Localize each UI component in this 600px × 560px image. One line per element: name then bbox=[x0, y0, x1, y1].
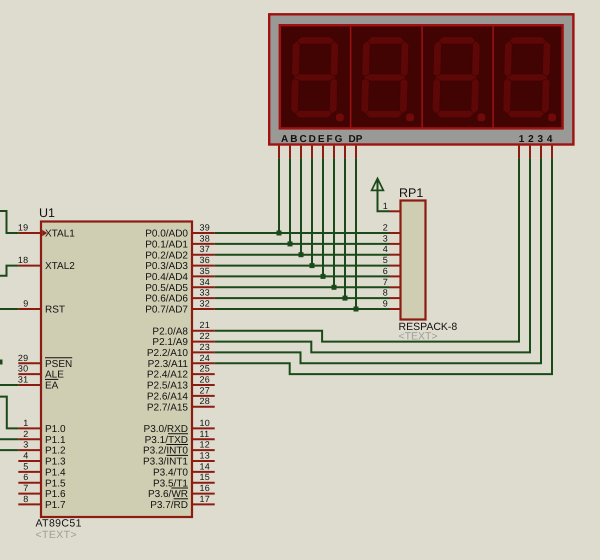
svg-text:38: 38 bbox=[200, 233, 211, 243]
wire display segment E down to AD4 net bbox=[322, 158, 324, 276]
svg-text:11: 11 bbox=[200, 429, 210, 439]
U1 pin 9 RST stub bbox=[18, 308, 41, 310]
svg-text:30: 30 bbox=[18, 364, 29, 374]
U1 pin 26 P2.5/A13 stub bbox=[192, 384, 215, 386]
svg-text:P2.4/A12: P2.4/A12 bbox=[147, 370, 189, 381]
svg-text:17: 17 bbox=[200, 494, 211, 504]
overline for P3.6/WR bbox=[171, 487, 188, 489]
resistor pack RP1 body bbox=[401, 201, 426, 320]
svg-text:23: 23 bbox=[200, 342, 211, 352]
wire P2.1 to display digit 2 bbox=[215, 158, 530, 352]
wire P0.5 to RP1 pin 7 (net AD5) bbox=[215, 286, 390, 288]
junction node AD0 bbox=[277, 231, 282, 236]
svg-text:RP1: RP1 bbox=[399, 186, 423, 200]
U1 pin 4 P1.3 stub bbox=[18, 460, 41, 462]
svg-text:32: 32 bbox=[200, 299, 211, 309]
svg-text:PSEN: PSEN bbox=[45, 359, 72, 370]
U1 pin 10 P3.0/RXD stub bbox=[192, 427, 215, 429]
wire to EA bbox=[0, 384, 18, 386]
svg-text:5: 5 bbox=[383, 255, 388, 265]
display digit 4 pin stub bbox=[551, 146, 553, 159]
svg-text:2: 2 bbox=[528, 134, 534, 145]
svg-text:4: 4 bbox=[383, 244, 388, 254]
U1 pin 33 P0.6/AD6 stub bbox=[192, 297, 215, 299]
svg-text:39: 39 bbox=[200, 223, 211, 233]
U1 pin 32 P0.7/AD7 stub bbox=[192, 308, 215, 310]
wire display segment DP down to AD7 net bbox=[355, 158, 357, 309]
svg-text:P0.2/AD2: P0.2/AD2 bbox=[145, 250, 188, 261]
display digit 2 pin stub bbox=[529, 146, 531, 159]
svg-text:16: 16 bbox=[200, 483, 211, 493]
svg-text:19: 19 bbox=[18, 223, 29, 233]
U1 pin 39 P0.0/AD0 stub bbox=[192, 232, 215, 234]
RP1 pin 6 stub bbox=[390, 275, 401, 277]
display inner dark panel bbox=[280, 25, 563, 128]
U1 pin 37 P0.2/AD2 stub bbox=[192, 254, 215, 256]
U1 pin 13 P3.3/INT1 stub bbox=[192, 460, 215, 462]
svg-text:31: 31 bbox=[18, 375, 29, 385]
svg-text:<TEXT>: <TEXT> bbox=[36, 529, 78, 541]
RP1 pin 4 stub bbox=[390, 254, 401, 256]
U1 pin 31 EA stub bbox=[18, 384, 41, 386]
svg-text:P1.6: P1.6 bbox=[45, 489, 66, 500]
RP1 pin 2 stub bbox=[390, 232, 401, 234]
wire display segment D down to AD3 net bbox=[311, 158, 313, 265]
svg-text:24: 24 bbox=[200, 353, 211, 363]
svg-text:1: 1 bbox=[519, 134, 525, 145]
7-seg ghost digit 1 bbox=[291, 37, 339, 118]
svg-text:21: 21 bbox=[200, 320, 211, 330]
svg-text:28: 28 bbox=[200, 396, 211, 406]
wire to XTAL1 (from off-page crystal) bbox=[0, 211, 18, 233]
wire to P1.0 bbox=[0, 397, 18, 429]
svg-text:P1.0: P1.0 bbox=[45, 424, 66, 435]
U1 pin 11 P3.1/TXD stub bbox=[192, 438, 215, 440]
svg-text:P2.6/A14: P2.6/A14 bbox=[147, 392, 189, 403]
overline for P3.1/TXD bbox=[168, 433, 188, 435]
overline for PSEN bbox=[45, 357, 72, 359]
MCU U1 body bbox=[41, 222, 192, 518]
wire to P1.2 bbox=[0, 449, 18, 451]
U1 pin 6 P1.5 stub bbox=[18, 482, 41, 484]
svg-text:12: 12 bbox=[200, 440, 211, 450]
U1 pin 8 P1.7 stub bbox=[18, 503, 41, 505]
U1 pin 27 P2.6/A14 stub bbox=[192, 395, 215, 397]
U1 pin 12 P3.2/INT0 stub bbox=[192, 449, 215, 451]
svg-text:29: 29 bbox=[18, 353, 29, 363]
svg-text:P2.5/A13: P2.5/A13 bbox=[147, 381, 189, 392]
digit cell separator 3 bbox=[492, 26, 494, 128]
digit cell separator 2 bbox=[421, 26, 423, 128]
svg-text:P2.1/A9: P2.1/A9 bbox=[152, 337, 188, 348]
U1 pin 28 P2.7/A15 stub bbox=[192, 406, 215, 408]
U1 pin 2 P1.1 stub bbox=[18, 438, 41, 440]
svg-text:RST: RST bbox=[45, 305, 65, 316]
svg-text:14: 14 bbox=[200, 461, 211, 471]
wire P0.1 to RP1 pin 3 (net AD1) bbox=[215, 243, 390, 245]
svg-text:P0.6/AD6: P0.6/AD6 bbox=[145, 294, 188, 305]
U1 pin 14 P3.4/T0 stub bbox=[192, 471, 215, 473]
wire P0.7 to RP1 pin 9 (net AD7) bbox=[215, 308, 390, 310]
U1 pin 35 P0.4/AD4 stub bbox=[192, 275, 215, 277]
display segment pin E stub bbox=[322, 146, 324, 159]
svg-text:1: 1 bbox=[383, 201, 388, 211]
7-segment display module outline bbox=[269, 14, 573, 144]
svg-text:1: 1 bbox=[23, 418, 28, 428]
wire to P1.1 bbox=[0, 438, 18, 440]
U1 pin 16 P3.6/WR stub bbox=[192, 493, 215, 495]
svg-text:37: 37 bbox=[200, 244, 211, 254]
power symbol (VCC arrow) bbox=[372, 178, 384, 190]
svg-text:8: 8 bbox=[383, 288, 388, 298]
U1 pin 34 P0.5/AD5 stub bbox=[192, 286, 215, 288]
RP1 pin 7 stub bbox=[390, 286, 401, 288]
svg-text:P0.5/AD5: P0.5/AD5 bbox=[145, 283, 188, 294]
overline for P3.7/RD bbox=[174, 498, 188, 500]
display segment pin B stub bbox=[289, 146, 291, 159]
7-seg ghost digit 4 bbox=[503, 37, 551, 118]
svg-text:7: 7 bbox=[383, 277, 388, 287]
svg-text:8: 8 bbox=[23, 494, 28, 504]
svg-text:13: 13 bbox=[200, 451, 211, 461]
RP1 pin 8 stub bbox=[390, 297, 401, 299]
U1 pin 29 PSEN stub bbox=[18, 362, 41, 364]
wire P0.0 to RP1 pin 2 (net AD0) bbox=[215, 232, 390, 234]
U1 pin 38 P0.1/AD1 stub bbox=[192, 243, 215, 245]
U1 pin 18 XTAL2 stub bbox=[18, 265, 41, 267]
svg-text:2: 2 bbox=[23, 429, 28, 439]
RP1 pin 1 stub bbox=[390, 210, 401, 212]
svg-text:DP: DP bbox=[349, 134, 363, 145]
RP1 pin 5 stub bbox=[390, 265, 401, 267]
svg-text:26: 26 bbox=[200, 375, 211, 385]
7-seg ghost digit 2 bbox=[361, 37, 409, 118]
svg-text:P2.2/A10: P2.2/A10 bbox=[147, 348, 189, 359]
svg-text:6: 6 bbox=[23, 472, 28, 482]
svg-text:P1.7: P1.7 bbox=[45, 500, 66, 511]
display segment pin F stub bbox=[333, 146, 335, 159]
display segment pin G stub bbox=[344, 146, 346, 159]
display digit 3 pin stub bbox=[540, 146, 542, 159]
display segment pin DP stub bbox=[355, 146, 357, 159]
junction node AD1 bbox=[288, 241, 293, 246]
U1 pin 1 P1.0 stub bbox=[18, 427, 41, 429]
svg-text:P0.0/AD0: P0.0/AD0 bbox=[145, 229, 188, 240]
svg-text:ABCDEFG: ABCDEFG bbox=[281, 134, 344, 145]
svg-text:15: 15 bbox=[200, 472, 211, 482]
wire P2.0 to display digit 1 bbox=[215, 158, 519, 341]
svg-text:5: 5 bbox=[23, 461, 28, 471]
wire to XTAL2 (from off-page crystal) bbox=[0, 266, 18, 276]
display segment pin A stub bbox=[278, 146, 280, 159]
digit cell separator 1 bbox=[350, 26, 352, 128]
decimal point DP digit 4 bbox=[548, 114, 556, 122]
svg-text:P1.5: P1.5 bbox=[45, 478, 66, 489]
display segment pin C stub bbox=[300, 146, 302, 159]
svg-text:P2.0/A8: P2.0/A8 bbox=[152, 326, 188, 337]
junction node AD4 bbox=[321, 274, 326, 279]
svg-text:3: 3 bbox=[23, 440, 28, 450]
RP1 pin 3 stub bbox=[390, 243, 401, 245]
wire display segment G down to AD6 net bbox=[344, 158, 346, 298]
U1 pin 22 P2.1/A9 stub bbox=[192, 341, 215, 343]
7-seg ghost digit 3 bbox=[432, 37, 480, 118]
svg-text:6: 6 bbox=[383, 266, 388, 276]
U1 pin 19 XTAL1 stub bbox=[18, 232, 41, 234]
U1 pin 15 P3.5/T1 stub bbox=[192, 482, 215, 484]
wire P0.4 to RP1 pin 6 (net AD4) bbox=[215, 275, 390, 277]
junction node AD5 bbox=[332, 285, 337, 290]
svg-text:P1.3: P1.3 bbox=[45, 457, 66, 468]
svg-text:P3.7/RD: P3.7/RD bbox=[150, 500, 188, 511]
decimal point DP digit 3 bbox=[478, 114, 486, 122]
decimal point DP digit 2 bbox=[406, 114, 414, 122]
wire P0.2 to RP1 pin 4 (net AD2) bbox=[215, 254, 390, 256]
display segment pin D stub bbox=[311, 146, 313, 159]
wire display segment A down to AD0 net bbox=[278, 158, 280, 233]
svg-text:XTAL2: XTAL2 bbox=[45, 261, 75, 272]
U1 pin 17 P3.7/RD stub bbox=[192, 503, 215, 505]
XTAL1 clock arrow marker bbox=[42, 230, 47, 236]
wire P2.2 to display digit 3 bbox=[215, 158, 541, 363]
svg-text:9: 9 bbox=[23, 299, 28, 309]
overline for P3.2/INT0 bbox=[166, 444, 188, 446]
wire power to RP1 pin 1 bbox=[378, 180, 390, 212]
svg-text:P0.3/AD3: P0.3/AD3 bbox=[145, 261, 188, 272]
U1 pin 24 P2.3/A11 stub bbox=[192, 362, 215, 364]
svg-text:9: 9 bbox=[383, 299, 388, 309]
svg-text:2: 2 bbox=[383, 223, 388, 233]
U1 pin 23 P2.2/A10 stub bbox=[192, 351, 215, 353]
U1 pin 5 P1.4 stub bbox=[18, 471, 41, 473]
svg-text:P0.7/AD7: P0.7/AD7 bbox=[145, 305, 188, 316]
svg-text:4: 4 bbox=[23, 451, 28, 461]
svg-text:34: 34 bbox=[200, 277, 211, 287]
wire display segment B down to AD1 net bbox=[289, 158, 291, 244]
svg-text:4: 4 bbox=[547, 134, 553, 145]
wire to RST bbox=[0, 308, 18, 310]
U1 pin 25 P2.4/A12 stub bbox=[192, 373, 215, 375]
svg-text:P1.2: P1.2 bbox=[45, 446, 66, 457]
svg-text:33: 33 bbox=[200, 288, 211, 298]
junction node AD3 bbox=[310, 263, 315, 268]
U1 pin 7 P1.6 stub bbox=[18, 493, 41, 495]
svg-text:EA: EA bbox=[45, 381, 59, 392]
U1 pin 30 ALE stub bbox=[18, 373, 41, 375]
U1 pin 3 P1.2 stub bbox=[18, 449, 41, 451]
junction node AD6 bbox=[343, 296, 348, 301]
U1 pin 36 P0.3/AD3 stub bbox=[192, 265, 215, 267]
overline for EA bbox=[45, 378, 58, 380]
decimal point DP digit 1 bbox=[336, 114, 344, 122]
svg-text:XTAL1: XTAL1 bbox=[45, 229, 75, 240]
svg-text:25: 25 bbox=[200, 364, 211, 374]
clipped junction at sheet edge near PSEN bbox=[0, 360, 3, 365]
svg-text:3: 3 bbox=[383, 233, 388, 243]
U1 pin 21 P2.0/A8 stub bbox=[192, 330, 215, 332]
svg-text:22: 22 bbox=[200, 331, 211, 341]
wire P2.3 to display digit 4 bbox=[215, 158, 552, 374]
svg-text:27: 27 bbox=[200, 385, 211, 395]
overline for P3.3/INT1 bbox=[166, 454, 188, 456]
svg-text:7: 7 bbox=[23, 483, 28, 493]
svg-text:U1: U1 bbox=[39, 206, 55, 220]
wire P0.3 to RP1 pin 5 (net AD3) bbox=[215, 265, 390, 267]
svg-text:P1.4: P1.4 bbox=[45, 468, 66, 479]
svg-text:P0.1/AD1: P0.1/AD1 bbox=[145, 240, 188, 251]
svg-text:P3.3/INT1: P3.3/INT1 bbox=[143, 457, 188, 468]
svg-text:P0.4/AD4: P0.4/AD4 bbox=[145, 272, 188, 283]
svg-text:P2.7/A15: P2.7/A15 bbox=[147, 402, 189, 413]
svg-text:3: 3 bbox=[538, 134, 544, 145]
wire display segment C down to AD2 net bbox=[300, 158, 302, 254]
wire P0.6 to RP1 pin 8 (net AD6) bbox=[215, 297, 390, 299]
display digit 1 pin stub bbox=[518, 146, 520, 159]
svg-text:18: 18 bbox=[18, 255, 29, 265]
wire display segment F down to AD5 net bbox=[333, 158, 335, 287]
svg-text:AT89C51: AT89C51 bbox=[36, 518, 82, 530]
svg-text:P2.3/A11: P2.3/A11 bbox=[148, 359, 189, 370]
svg-text:P1.1: P1.1 bbox=[45, 435, 66, 446]
junction node AD2 bbox=[299, 252, 304, 257]
svg-text:P3.4/T0: P3.4/T0 bbox=[153, 468, 188, 479]
svg-text:10: 10 bbox=[200, 418, 211, 428]
RP1 pin 9 stub bbox=[390, 308, 401, 310]
svg-text:36: 36 bbox=[200, 255, 211, 265]
junction node AD7 bbox=[354, 307, 359, 312]
svg-text:35: 35 bbox=[200, 266, 211, 276]
